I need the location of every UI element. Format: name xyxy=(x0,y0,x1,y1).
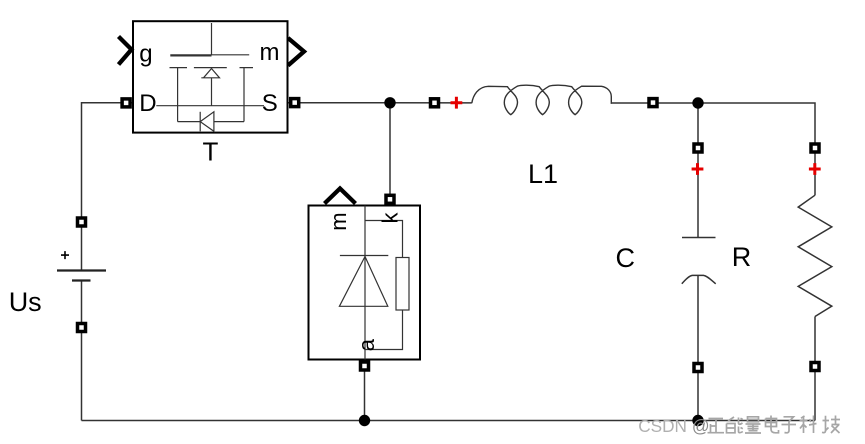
inductor L1 : coil xyxy=(472,85,612,114)
transistor T : channel segments xyxy=(170,67,254,69)
diode D1 : top port square xyxy=(386,195,394,203)
capacitor C : top plate xyxy=(682,237,716,239)
diode D1 : internal cathode-anode line xyxy=(364,206,366,360)
diode D1 : triangle xyxy=(339,257,387,307)
resistor R : red plus polarity mark xyxy=(809,163,821,175)
diode D1 : snubber lower wire xyxy=(365,310,403,350)
inductor L1 : right port square xyxy=(649,99,657,107)
svg-text:m: m xyxy=(260,39,280,66)
capacitor C : red plus polarity mark xyxy=(692,163,704,175)
char 能 xyxy=(727,417,743,433)
voltage source Us : plus sign xyxy=(61,251,69,259)
svg-text:S: S xyxy=(262,90,278,117)
voltage source Us : top port square xyxy=(78,218,86,226)
char 量 xyxy=(745,417,761,433)
diode D1 : k branch wire xyxy=(365,221,403,258)
svg-text:D: D xyxy=(139,90,156,117)
char 科 xyxy=(800,416,817,434)
transistor T : S port square xyxy=(291,99,299,107)
junction node at S wire / diode branch xyxy=(384,97,395,108)
capacitor C : curved bottom plate xyxy=(682,275,716,283)
wire resistor bottom to bottom rail xyxy=(814,317,816,421)
junction node at inductor out / capacitor branch xyxy=(692,97,703,108)
resistor R : top port square xyxy=(811,144,819,152)
transistor T : right leg xyxy=(243,68,245,122)
wire from junction down to diode block top port xyxy=(389,103,391,194)
transistor T : m port chevron xyxy=(288,38,304,66)
resistor R : bottom port square xyxy=(811,363,819,371)
junction node bottom rail / capacitor branch xyxy=(692,415,703,426)
wire capacitor branch lower xyxy=(697,275,699,420)
capacitor C : top port square xyxy=(694,144,702,152)
svg-text:C: C xyxy=(615,243,635,273)
inductor L1 : red plus polarity mark xyxy=(451,97,463,109)
diode D1 : m port chevron (up) xyxy=(325,189,356,204)
svg-text:g: g xyxy=(139,40,152,67)
svg-text:T: T xyxy=(203,137,219,167)
transistor T : body diode bar xyxy=(199,112,201,132)
svg-text:k: k xyxy=(377,212,402,224)
char 技 xyxy=(822,416,840,434)
char 子 xyxy=(782,417,797,433)
svg-text:L1: L1 xyxy=(528,159,558,189)
inductor L1 : left port square xyxy=(431,99,439,107)
transistor T : arrow stem to D-S line xyxy=(211,78,213,106)
transistor T : D-S line xyxy=(156,105,264,107)
svg-text:CSDN: CSDN xyxy=(638,416,687,436)
diode D1 : bottom port square xyxy=(361,362,369,370)
svg-text:m: m xyxy=(326,212,351,230)
voltage source Us : bottom port square xyxy=(78,324,86,332)
transistor T : left leg xyxy=(177,68,179,122)
voltage source Us : short plate xyxy=(72,279,91,281)
diode D1 : snubber resistor rectangle xyxy=(396,258,409,311)
diode D1 : cathode bar xyxy=(340,255,388,257)
transistor T : g port chevron xyxy=(119,37,132,65)
transistor T : D port square xyxy=(122,99,130,107)
voltage source Us : long plate xyxy=(57,269,106,271)
wire from source bottom to bottom rail xyxy=(81,281,83,421)
watermark CJK characters (drawn strokes) xyxy=(708,416,841,434)
capacitor C : bottom port square xyxy=(694,364,702,372)
transistor T : body diode triangle xyxy=(200,112,214,132)
resistor R : zigzag xyxy=(798,195,832,316)
transistor T : gate lead xyxy=(211,23,213,55)
wire bottom rail xyxy=(82,420,816,422)
transistor T : substrate arrow xyxy=(201,69,219,78)
wire from MOSFET S port to inductor xyxy=(288,102,472,104)
transistor T : gate plate xyxy=(170,55,249,56)
wire from diode block bottom port to bottom rail xyxy=(364,361,366,421)
svg-text:Us: Us xyxy=(9,287,42,317)
diode D1 : block body xyxy=(309,206,421,360)
svg-text:R: R xyxy=(732,242,752,272)
svg-text:@: @ xyxy=(692,416,710,436)
junction node bottom rail / diode branch xyxy=(359,415,370,426)
wire from inductor right to top-right corner and down xyxy=(612,103,815,195)
char 电 xyxy=(766,416,779,433)
svg-text:a: a xyxy=(354,338,379,351)
wire from source top to MOSFET D port xyxy=(82,103,134,271)
char 正 xyxy=(708,419,725,433)
wire capacitor branch upper xyxy=(697,103,699,238)
transistor T : body diode wires xyxy=(178,121,244,123)
transistor T : MOSFET block body xyxy=(133,21,288,132)
